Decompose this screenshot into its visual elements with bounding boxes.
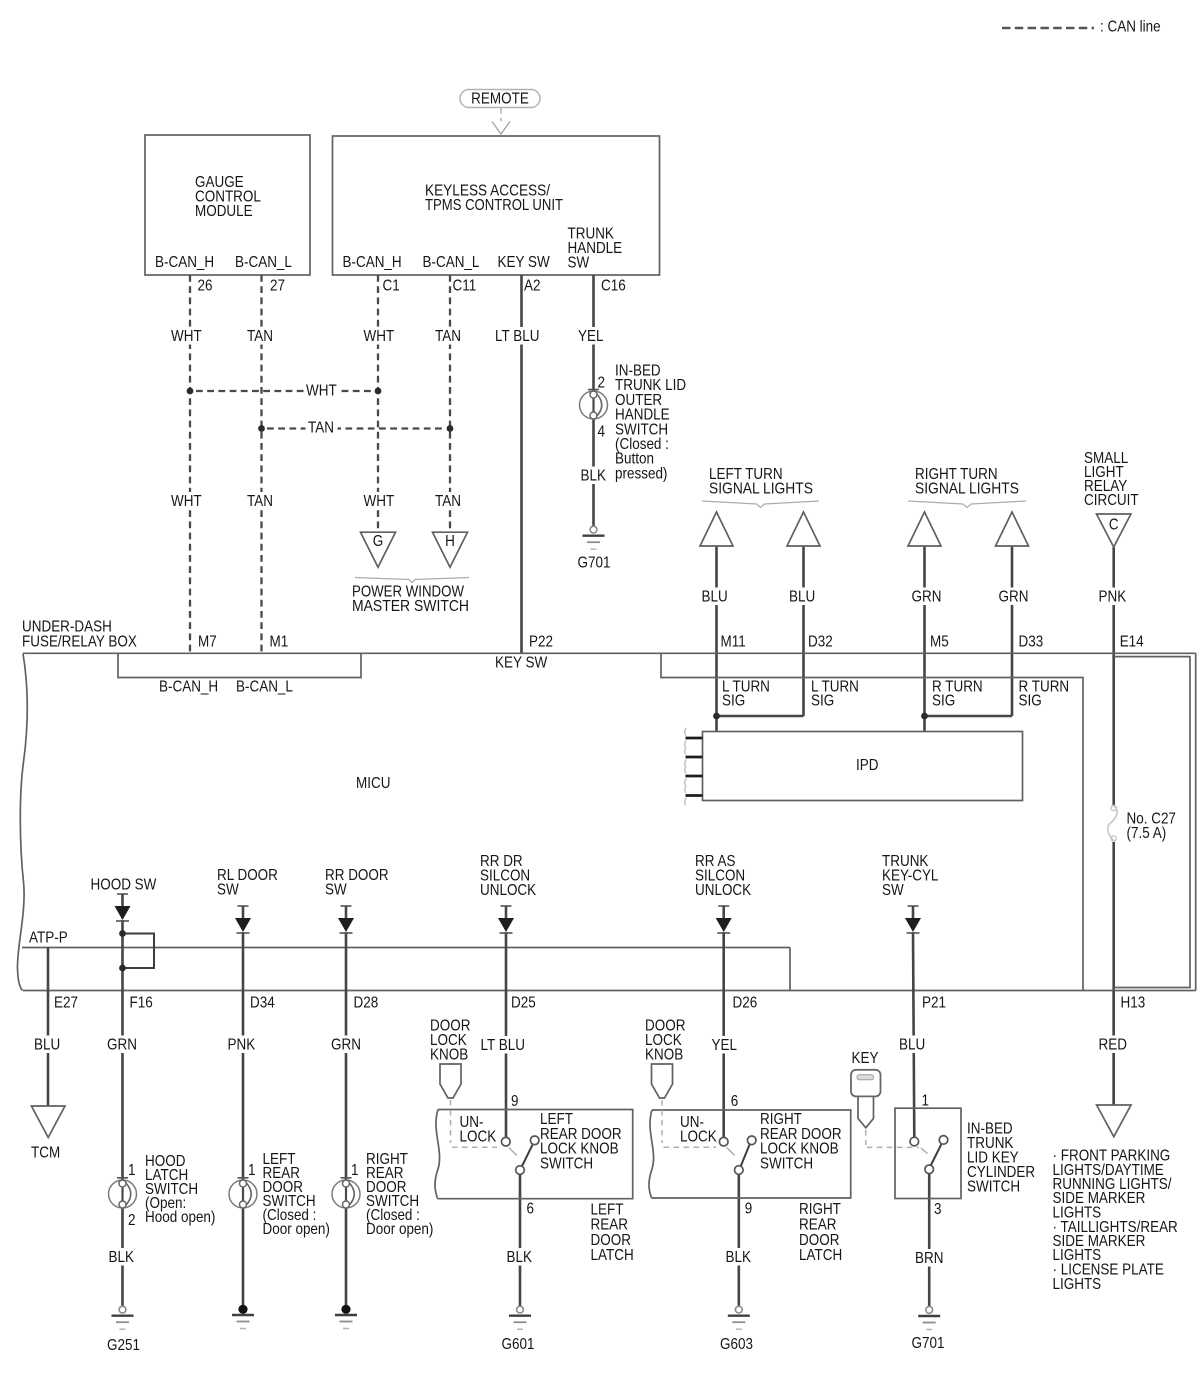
svg-text:SIG: SIG [811,693,834,710]
svg-text:WHT: WHT [171,328,202,345]
svg-text:C: C [1109,517,1119,534]
svg-text:GRN: GRN [107,1037,137,1054]
svg-text:BLU: BLU [789,589,815,606]
svg-text:KNOB: KNOB [645,1047,683,1064]
svg-text:SWITCH: SWITCH [540,1156,593,1173]
svg-text:4: 4 [598,424,605,441]
svg-text:TAN: TAN [308,420,334,437]
svg-text:B-CAN_L: B-CAN_L [236,679,293,696]
svg-text:TAN: TAN [435,493,461,510]
svg-text:B-CAN_L: B-CAN_L [423,254,480,271]
svg-text:BLK: BLK [581,468,607,485]
svg-text:WHT: WHT [364,328,395,345]
svg-text:MICU: MICU [356,775,390,792]
svg-text:UNLOCK: UNLOCK [480,882,536,899]
svg-text:CIRCUIT: CIRCUIT [1084,492,1139,509]
svg-text:: CAN line: : CAN line [1100,19,1161,36]
svg-text:BLU: BLU [899,1037,925,1054]
svg-text:1: 1 [248,1162,255,1179]
svg-text:H13: H13 [1121,995,1146,1012]
svg-text:1: 1 [922,1093,929,1110]
svg-text:E27: E27 [54,995,78,1012]
svg-text:SW: SW [325,882,347,899]
svg-text:WHT: WHT [171,493,202,510]
svg-text:P22: P22 [529,634,553,651]
svg-text:M1: M1 [270,634,289,651]
svg-text:SWITCH: SWITCH [760,1156,813,1173]
svg-text:C1: C1 [383,278,400,295]
svg-text:1: 1 [351,1162,358,1179]
svg-text:F16: F16 [130,995,153,1012]
svg-text:LOCK: LOCK [460,1129,497,1146]
svg-text:TAN: TAN [435,328,461,345]
svg-text:LT BLU: LT BLU [495,328,539,345]
svg-text:9: 9 [511,1093,518,1110]
svg-text:RED: RED [1099,1037,1127,1054]
svg-text:TCM: TCM [31,1145,60,1162]
svg-text:KEY SW: KEY SW [495,655,547,672]
svg-text:HOOD SW: HOOD SW [91,877,157,894]
svg-text:6: 6 [731,1093,738,1110]
svg-text:YEL: YEL [712,1037,737,1054]
svg-text:KEY: KEY [852,1050,879,1067]
svg-text:SW: SW [882,882,904,899]
svg-text:1: 1 [128,1162,135,1179]
svg-text:6: 6 [527,1201,534,1218]
svg-text:G603: G603 [720,1336,753,1353]
svg-text:FUSE/RELAY BOX: FUSE/RELAY BOX [22,634,137,651]
svg-text:C16: C16 [601,278,626,295]
svg-text:PNK: PNK [1099,589,1127,606]
svg-text:M5: M5 [930,634,949,651]
svg-text:WHT: WHT [306,383,337,400]
svg-text:BLU: BLU [34,1037,60,1054]
svg-text:3: 3 [934,1201,941,1218]
svg-text:GRN: GRN [331,1037,361,1054]
svg-text:B-CAN_H: B-CAN_H [343,254,402,271]
svg-text:SW: SW [568,255,590,272]
svg-text:D32: D32 [808,634,833,651]
svg-text:M7: M7 [198,634,217,651]
svg-text:9: 9 [745,1201,752,1218]
svg-text:TAN: TAN [247,493,273,510]
svg-text:SWITCH: SWITCH [967,1179,1020,1196]
svg-text:BLU: BLU [702,589,728,606]
svg-text:2: 2 [598,375,605,392]
svg-text:D28: D28 [354,995,379,1012]
svg-text:B-CAN_L: B-CAN_L [235,254,292,271]
svg-text:D34: D34 [250,995,275,1012]
svg-text:G251: G251 [107,1337,140,1354]
svg-text:TAN: TAN [247,328,273,345]
svg-text:ATP-P: ATP-P [29,930,68,947]
svg-text:BRN: BRN [915,1250,943,1267]
svg-text:SIG: SIG [722,693,745,710]
svg-text:SIG: SIG [1019,693,1042,710]
svg-text:MASTER SWITCH: MASTER SWITCH [352,598,469,615]
svg-text:G601: G601 [502,1336,535,1353]
svg-text:SW: SW [217,882,239,899]
svg-text:B-CAN_H: B-CAN_H [159,679,218,696]
svg-text:P21: P21 [922,995,946,1012]
svg-text:M11: M11 [721,634,746,651]
svg-text:G701: G701 [578,555,611,572]
svg-text:SIGNAL LIGHTS: SIGNAL LIGHTS [709,481,813,498]
svg-text:pressed): pressed) [615,466,667,483]
svg-text:BLK: BLK [726,1249,752,1266]
svg-text:GRN: GRN [999,589,1029,606]
svg-text:KNOB: KNOB [430,1047,468,1064]
svg-text:G: G [373,533,383,550]
svg-text:D26: D26 [733,995,758,1012]
svg-text:WHT: WHT [364,493,395,510]
svg-text:D25: D25 [511,995,536,1012]
svg-text:Door open): Door open) [366,1221,433,1238]
svg-text:LIGHTS: LIGHTS [1053,1276,1102,1293]
svg-text:MODULE: MODULE [195,203,253,220]
svg-text:UNLOCK: UNLOCK [695,882,751,899]
svg-text:SIG: SIG [932,693,955,710]
svg-text:BLK: BLK [109,1249,135,1266]
svg-text:Door open): Door open) [263,1221,330,1238]
svg-text:BLK: BLK [507,1249,533,1266]
svg-text:YEL: YEL [578,328,603,345]
svg-text:2: 2 [128,1212,135,1229]
svg-text:PNK: PNK [228,1037,256,1054]
svg-text:LOCK: LOCK [680,1129,717,1146]
svg-text:LATCH: LATCH [799,1247,842,1264]
svg-text:G701: G701 [912,1335,945,1352]
svg-text:(7.5 A): (7.5 A) [1127,825,1167,842]
svg-text:A2: A2 [524,278,540,295]
svg-text:IPD: IPD [856,757,878,774]
svg-text:E14: E14 [1120,634,1144,651]
svg-text:D33: D33 [1019,634,1044,651]
svg-text:LATCH: LATCH [591,1247,634,1264]
svg-text:KEY SW: KEY SW [498,254,550,271]
svg-text:SIGNAL LIGHTS: SIGNAL LIGHTS [915,481,1019,498]
svg-text:C11: C11 [453,278,477,295]
svg-text:B-CAN_H: B-CAN_H [155,254,214,271]
svg-text:27: 27 [270,278,285,295]
svg-text:H: H [445,533,455,550]
svg-text:LT BLU: LT BLU [481,1037,525,1054]
svg-text:26: 26 [198,278,213,295]
svg-text:Hood open): Hood open) [145,1209,215,1226]
svg-text:GRN: GRN [912,589,942,606]
svg-text:TPMS CONTROL UNIT: TPMS CONTROL UNIT [425,197,563,214]
svg-text:REMOTE: REMOTE [471,91,529,108]
